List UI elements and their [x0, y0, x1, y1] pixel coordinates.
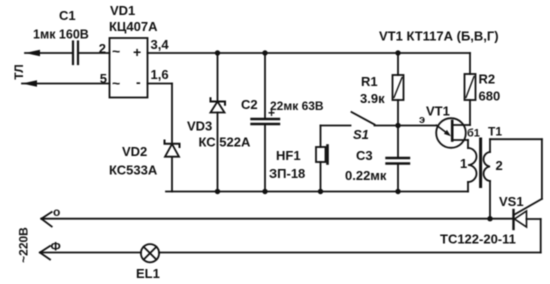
- svg-text:VT1: VT1: [426, 104, 450, 119]
- svg-text:ЗП-18: ЗП-18: [269, 166, 305, 181]
- svg-text:б1: б1: [467, 128, 480, 140]
- svg-text:EL1: EL1: [136, 266, 160, 281]
- svg-text:680: 680: [479, 89, 501, 104]
- svg-text:НF1: НF1: [276, 148, 301, 163]
- svg-text:VS1: VS1: [499, 194, 524, 209]
- svg-text:VD1: VD1: [110, 3, 135, 18]
- svg-text:1: 1: [460, 156, 467, 171]
- svg-text:1мк 160В: 1мк 160В: [33, 28, 89, 42]
- svg-text:VD2: VD2: [122, 144, 147, 159]
- svg-text:S1: S1: [353, 127, 369, 142]
- svg-text:ТЛ: ТЛ: [12, 64, 26, 79]
- svg-text:-: -: [136, 74, 141, 90]
- svg-text:Ф: Ф: [51, 240, 61, 254]
- svg-text:~220В: ~220В: [17, 227, 31, 263]
- svg-text:С3: С3: [356, 148, 373, 163]
- svg-text:~: ~: [112, 75, 120, 91]
- svg-text:0.22мк: 0.22мк: [345, 168, 387, 183]
- svg-text:VT1 КТ117А (Б,В,Г): VT1 КТ117А (Б,В,Г): [379, 29, 499, 44]
- svg-text:КС 522А: КС 522А: [199, 135, 251, 150]
- svg-text:~: ~: [112, 43, 120, 59]
- svg-text:+: +: [268, 106, 275, 120]
- svg-text:R2: R2: [479, 72, 496, 87]
- svg-text:КС533А: КС533А: [109, 163, 158, 178]
- svg-text:2: 2: [496, 158, 503, 173]
- svg-text:3.9к: 3.9к: [360, 91, 385, 106]
- svg-text:R1: R1: [361, 74, 378, 89]
- svg-text:1,6: 1,6: [151, 67, 169, 82]
- svg-text:5: 5: [100, 71, 107, 86]
- svg-text:ТС122-20-11: ТС122-20-11: [440, 232, 516, 247]
- svg-text:С2: С2: [241, 97, 258, 112]
- svg-text:2: 2: [99, 41, 106, 56]
- svg-text:Т1: Т1: [488, 125, 502, 139]
- svg-text:о: о: [53, 205, 60, 219]
- svg-text:3,4: 3,4: [151, 37, 170, 52]
- svg-text:VD3: VD3: [187, 119, 212, 134]
- svg-text:+: +: [133, 44, 141, 60]
- svg-text:22мк 63В: 22мк 63В: [270, 99, 324, 113]
- svg-text:э: э: [419, 114, 425, 126]
- svg-text:С1: С1: [59, 8, 76, 23]
- svg-text:КЦ407А: КЦ407А: [109, 19, 158, 34]
